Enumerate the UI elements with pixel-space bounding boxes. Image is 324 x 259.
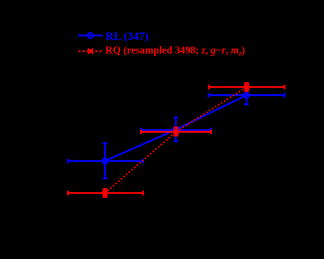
blue series: [68, 86, 285, 179]
legend RL line: [78, 33, 103, 38]
red P3 v-error: [246, 83, 248, 91]
legend RQ dotted line: [79, 50, 104, 52]
blue P1 v-error: [104, 143, 106, 179]
red P2 h-error: [141, 131, 211, 133]
red P1 v-error: [104, 189, 106, 197]
svg-text:RL (347): RL (347): [106, 31, 149, 43]
red x markers: [102, 84, 249, 195]
svg-text:RQ (resampled 3498; z, g−r, mz: RQ (resampled 3498; z, g−r, mz): [105, 46, 245, 58]
blue P3 h-error: [209, 94, 285, 96]
blue P1 h-error: [68, 160, 143, 162]
red dotted connecting line: [105, 87, 247, 193]
red series: [68, 83, 285, 197]
blue connecting line: [105, 95, 247, 161]
blue P2 h-error: [141, 129, 211, 131]
blue P2 v-error: [175, 118, 177, 142]
red P3 h-error: [209, 86, 285, 88]
legend RQ x marker: [88, 49, 93, 54]
red P1 h-error: [68, 192, 143, 194]
blue markers: [102, 158, 107, 163]
blue P3 v-error: [246, 86, 248, 105]
red P2 v-error: [175, 128, 177, 136]
